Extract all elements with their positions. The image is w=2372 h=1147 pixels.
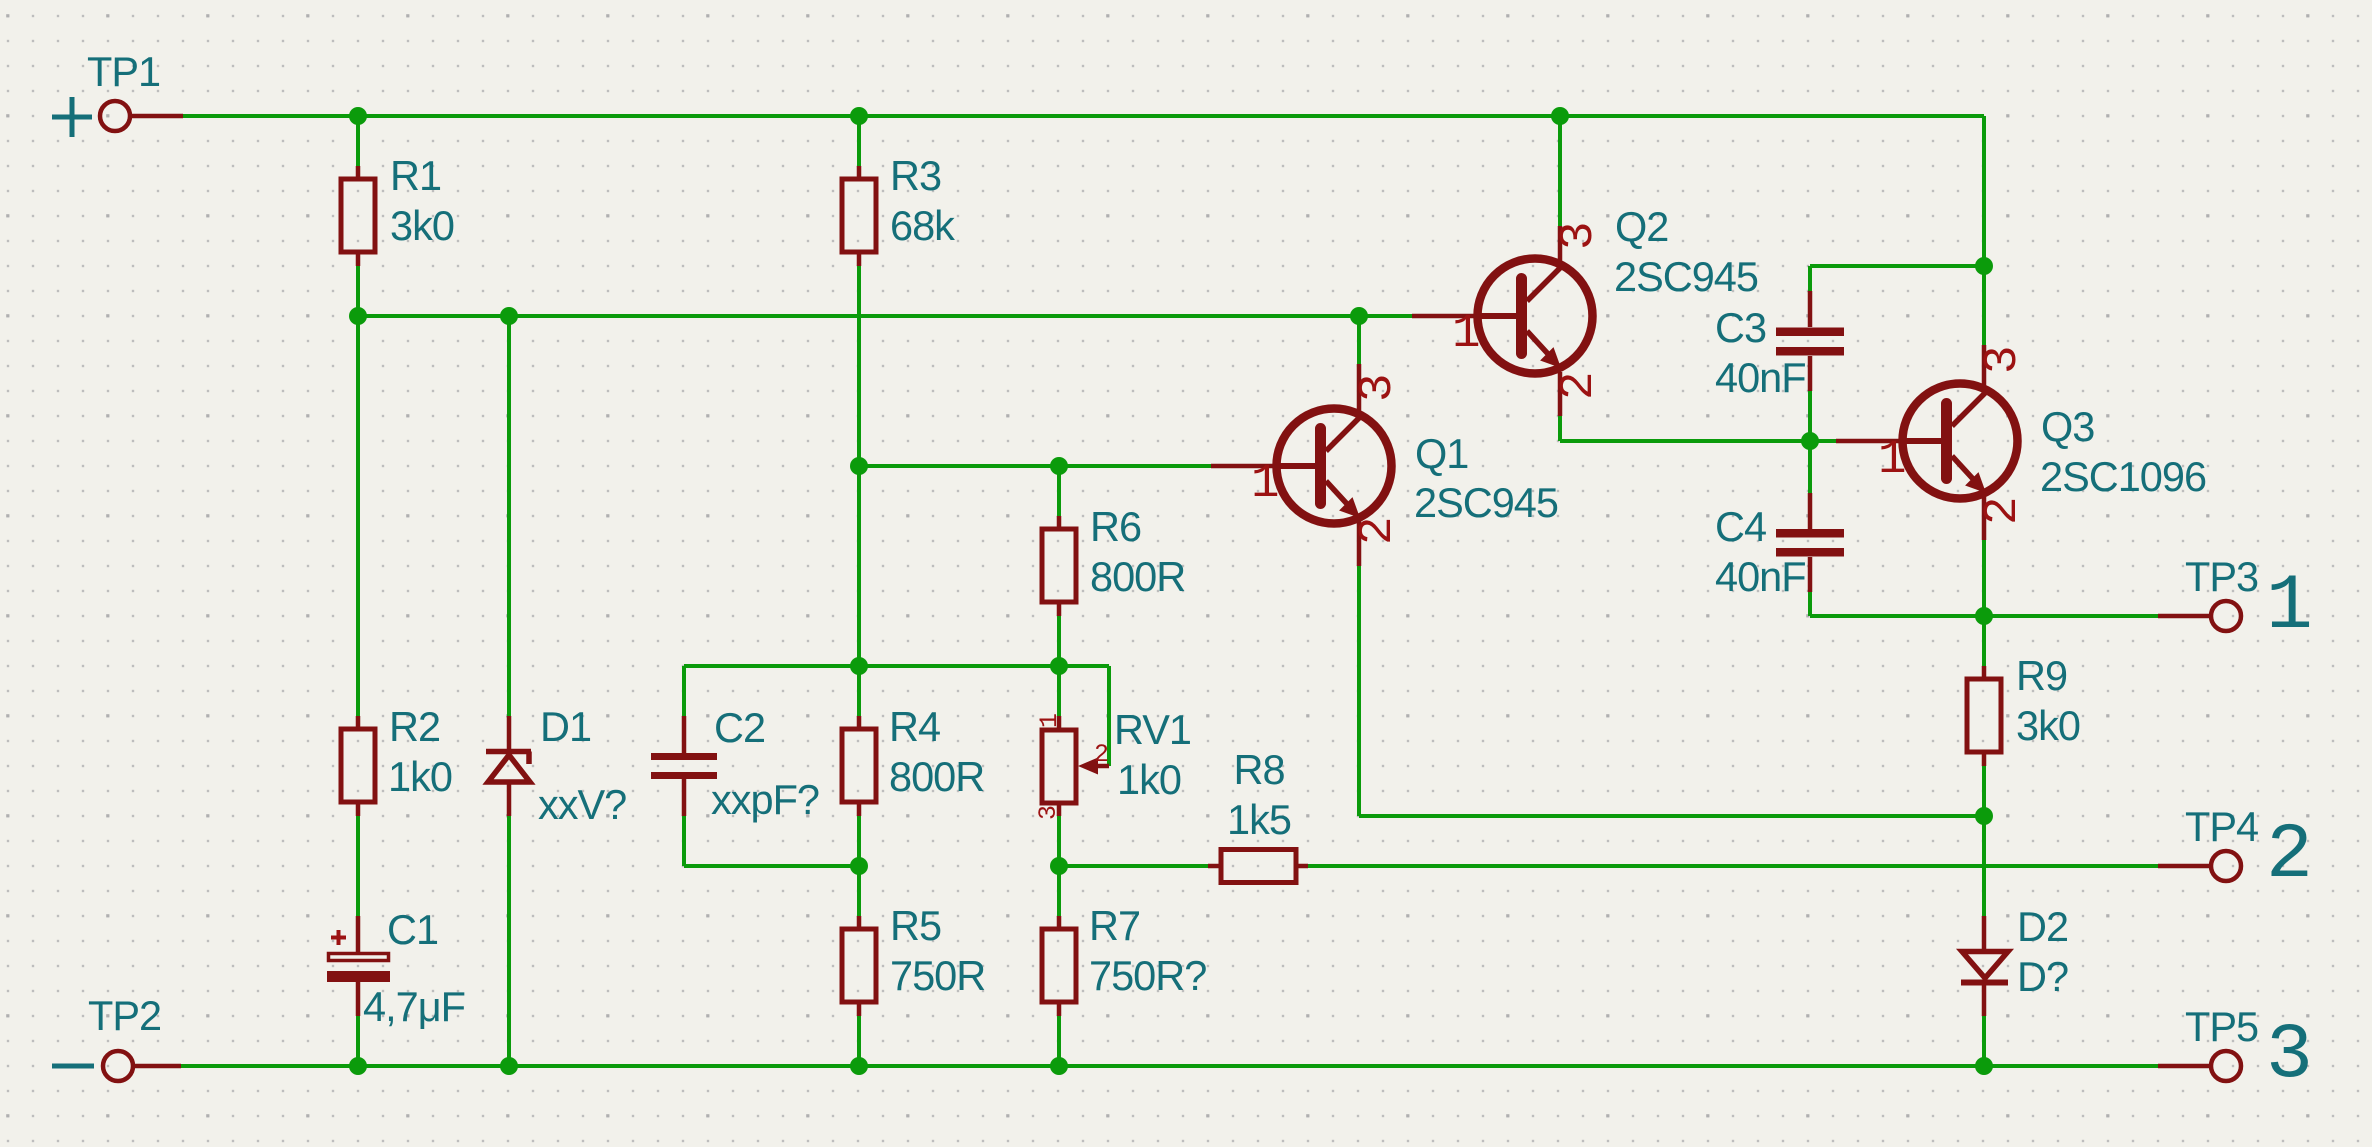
svg-text:3k0: 3k0 xyxy=(390,202,454,249)
svg-text:Q3: Q3 xyxy=(2041,403,2094,450)
svg-text:3k0: 3k0 xyxy=(2016,702,2080,749)
svg-text:1: 1 xyxy=(1251,457,1278,511)
svg-text:TP3: TP3 xyxy=(2185,553,2258,600)
svg-text:R8: R8 xyxy=(1233,746,1284,793)
svg-text:xxpF?: xxpF? xyxy=(711,776,819,823)
svg-text:C3: C3 xyxy=(1715,304,1766,351)
svg-text:2: 2 xyxy=(1552,374,1606,400)
svg-text:3: 3 xyxy=(1034,806,1063,820)
svg-text:2: 2 xyxy=(1351,519,1405,545)
svg-text:3: 3 xyxy=(1351,376,1405,402)
svg-text:TP4: TP4 xyxy=(2185,803,2258,850)
svg-text:1: 1 xyxy=(1452,307,1479,361)
svg-text:2: 2 xyxy=(1976,499,2030,525)
svg-text:C2: C2 xyxy=(714,704,765,751)
svg-text:3: 3 xyxy=(2266,1012,2313,1100)
svg-text:1k0: 1k0 xyxy=(388,753,452,800)
svg-text:R4: R4 xyxy=(889,703,940,750)
svg-text:R7: R7 xyxy=(1089,902,1140,949)
svg-text:1k5: 1k5 xyxy=(1227,796,1291,843)
svg-text:750R: 750R xyxy=(890,952,985,999)
svg-text:R1: R1 xyxy=(390,152,441,199)
svg-text:4,7μF: 4,7μF xyxy=(363,983,465,1030)
svg-text:R9: R9 xyxy=(2016,652,2067,699)
svg-text:xxV?: xxV? xyxy=(538,781,626,828)
svg-text:Q1: Q1 xyxy=(1415,430,1468,477)
svg-text:750R?: 750R? xyxy=(1089,952,1206,999)
svg-text:40nF: 40nF xyxy=(1715,354,1806,401)
svg-text:C1: C1 xyxy=(387,906,438,953)
svg-text:D1: D1 xyxy=(540,703,591,750)
svg-text:1: 1 xyxy=(1035,714,1064,728)
svg-text:R2: R2 xyxy=(389,703,440,750)
svg-text:40nF: 40nF xyxy=(1715,553,1806,600)
svg-text:2: 2 xyxy=(2266,812,2313,900)
svg-text:2SC1096: 2SC1096 xyxy=(2040,453,2206,500)
svg-text:R5: R5 xyxy=(890,902,941,949)
svg-text:TP2: TP2 xyxy=(88,992,161,1039)
svg-text:800R: 800R xyxy=(1090,553,1185,600)
svg-text:RV1: RV1 xyxy=(1114,706,1191,753)
svg-text:2: 2 xyxy=(1094,740,1108,769)
svg-text:R6: R6 xyxy=(1090,503,1141,550)
svg-text:TP1: TP1 xyxy=(87,48,160,95)
svg-text:D?: D? xyxy=(2017,953,2068,1000)
svg-text:TP5: TP5 xyxy=(2185,1003,2258,1050)
svg-text:2SC945: 2SC945 xyxy=(1614,253,1758,300)
svg-text:3: 3 xyxy=(1552,224,1606,250)
svg-text:800R: 800R xyxy=(889,753,984,800)
svg-text:1: 1 xyxy=(2266,563,2313,651)
svg-text:C4: C4 xyxy=(1715,503,1766,550)
svg-text:Q2: Q2 xyxy=(1615,203,1668,250)
svg-text:1: 1 xyxy=(1878,433,1905,487)
svg-text:1k0: 1k0 xyxy=(1117,756,1181,803)
svg-text:3: 3 xyxy=(1976,348,2030,374)
svg-text:68k: 68k xyxy=(890,202,955,249)
svg-text:2SC945: 2SC945 xyxy=(1414,479,1558,526)
svg-text:D2: D2 xyxy=(2017,903,2068,950)
svg-text:R3: R3 xyxy=(890,152,941,199)
